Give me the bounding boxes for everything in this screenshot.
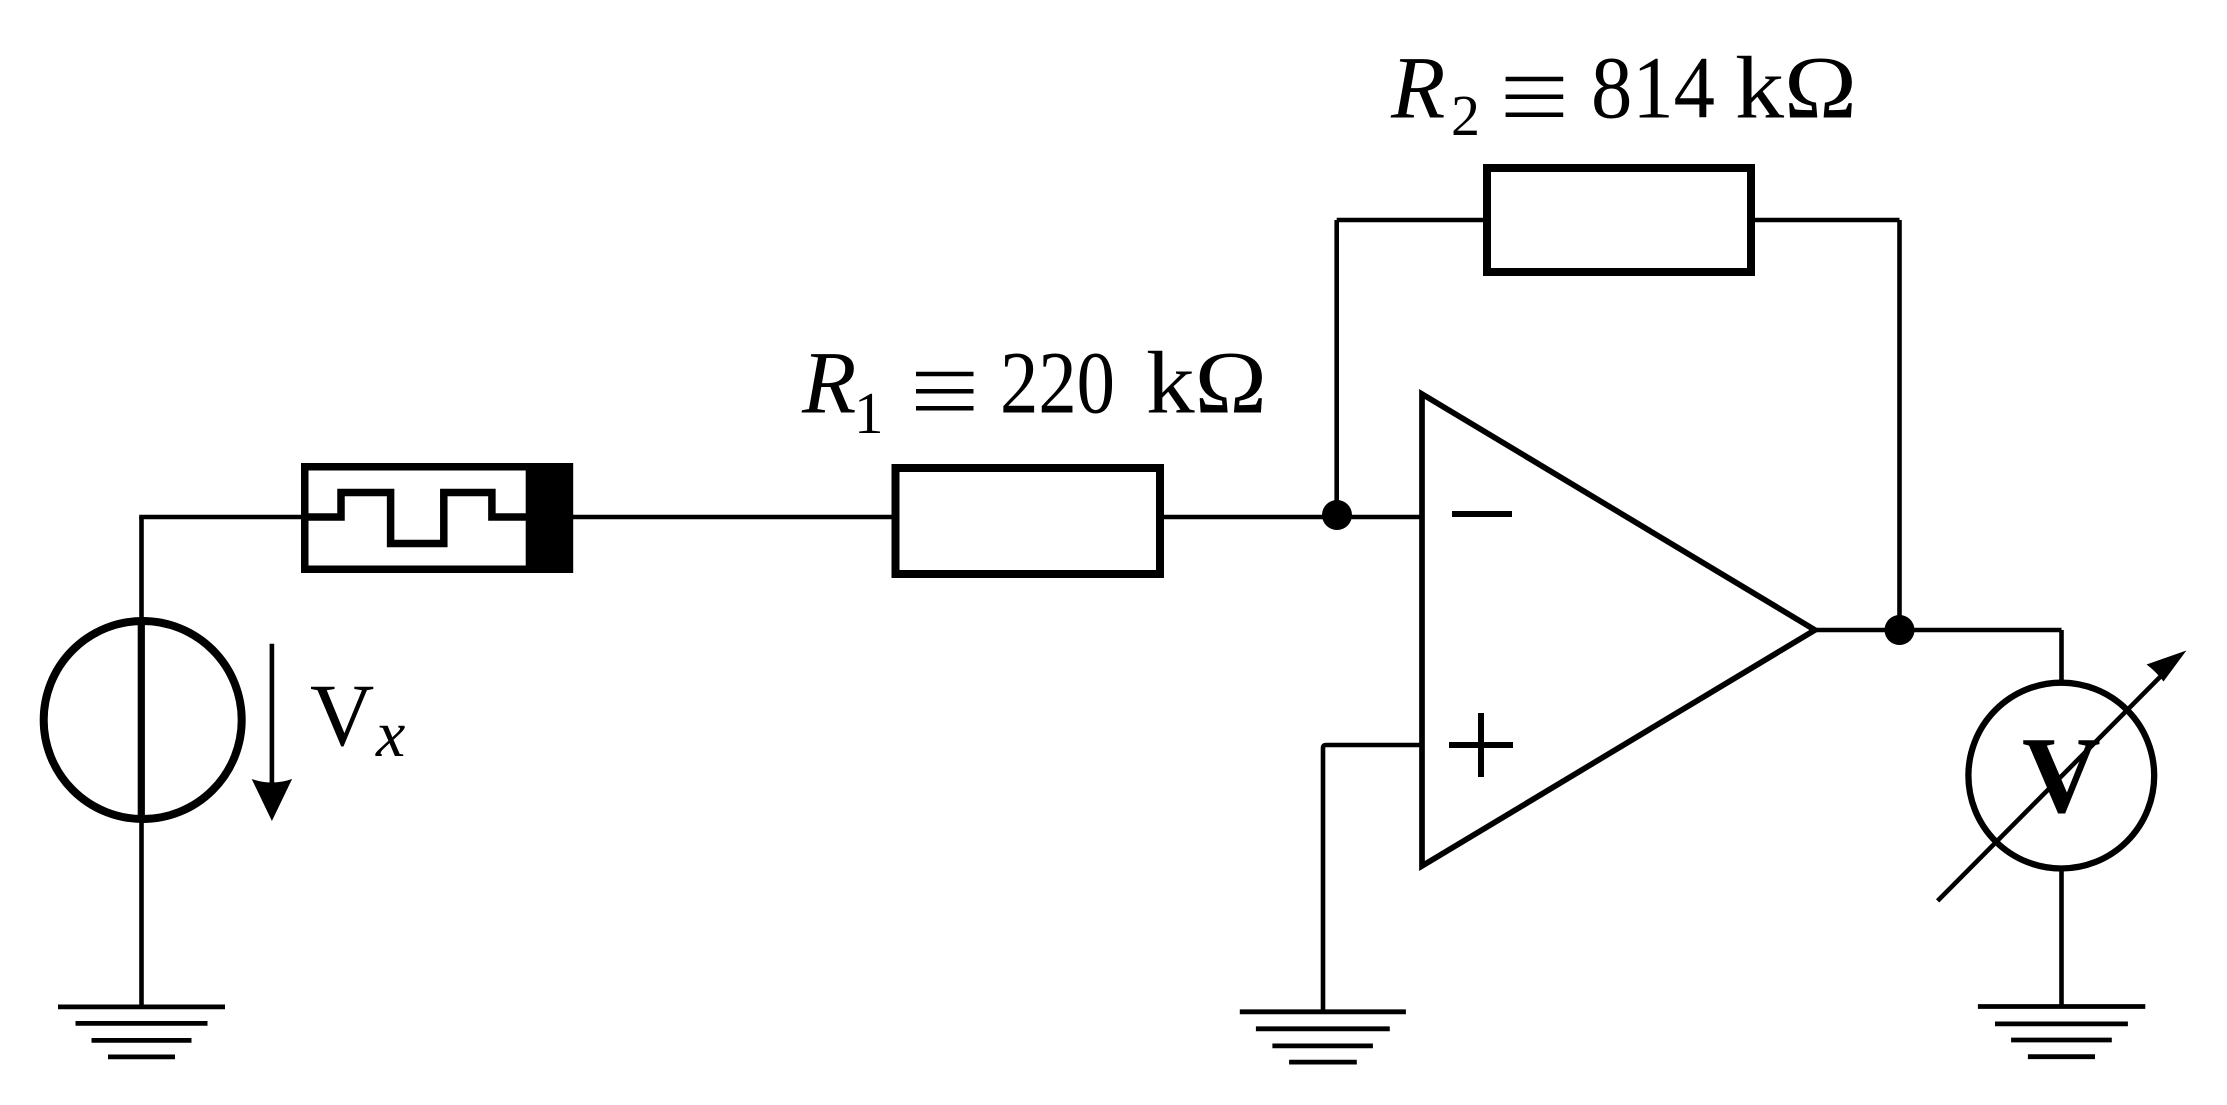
op-amp U1 triangle xyxy=(1422,394,1815,866)
feedback wire left vertical xyxy=(1334,220,1339,517)
ground GND3 (voltmeter) xyxy=(1978,1007,2145,1057)
ground GND1 (below source) xyxy=(58,1007,225,1057)
label R2 xyxy=(1390,40,1857,149)
wire op-amp + input and down to ground xyxy=(1323,745,1422,1012)
wire voltmeter to ground xyxy=(2059,871,2064,1007)
ground GND2 (+ input) xyxy=(1240,1012,1406,1062)
wire R1 to node A xyxy=(1164,515,1337,520)
op-amp minus sign xyxy=(1452,511,1512,517)
resistor R1 xyxy=(896,468,1161,574)
wire memristor to R1 xyxy=(573,515,892,520)
output wire xyxy=(1815,628,2062,633)
resistor R2 xyxy=(1487,168,1751,272)
svg-text:kΩ: kΩ xyxy=(1146,335,1267,433)
wire down to voltmeter xyxy=(2059,630,2064,680)
feedback wire right vertical xyxy=(1897,220,1902,630)
voltmeter arrow xyxy=(1938,651,2187,901)
svg-text:1: 1 xyxy=(854,380,884,446)
wire R2 right to output vertical xyxy=(1751,218,1900,223)
voltage source Vx circle xyxy=(44,621,242,819)
svg-text:kΩ: kΩ xyxy=(1735,40,1857,138)
label R1 xyxy=(801,335,1267,447)
svg-text:2: 2 xyxy=(1451,83,1480,148)
op-amp plus sign xyxy=(1449,713,1513,777)
wire to R2 left xyxy=(1337,218,1483,223)
svg-text:R: R xyxy=(1390,40,1445,138)
wire source corner to memristor xyxy=(139,515,301,520)
svg-text:x: x xyxy=(375,698,405,771)
voltmeter circle xyxy=(1968,683,2154,869)
svg-text:814: 814 xyxy=(1591,40,1715,138)
voltage source internal bar xyxy=(138,619,145,821)
node A (inverting input junction) xyxy=(1322,500,1352,530)
label Vx xyxy=(310,667,405,771)
svg-text:220: 220 xyxy=(1000,335,1115,433)
wire node A to op-amp xyxy=(1337,515,1422,520)
arrow Vx xyxy=(252,644,292,821)
svg-text:V: V xyxy=(310,667,374,765)
memristor M1 xyxy=(301,463,573,573)
svg-text:R: R xyxy=(801,335,856,433)
node B (output junction) xyxy=(1885,615,1915,645)
wire source vertical (corner to ground, through source) xyxy=(139,517,144,1007)
